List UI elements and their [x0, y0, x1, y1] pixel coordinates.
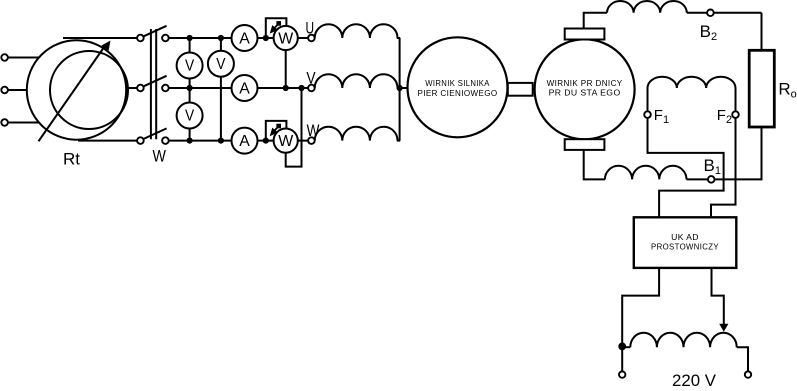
svg-text:V: V	[185, 108, 194, 125]
svg-text:W: W	[153, 147, 166, 166]
svg-text:W: W	[307, 121, 320, 140]
svg-text:WIRNIK SILNIKA: WIRNIK SILNIKA	[425, 78, 490, 88]
svg-text:PR DU STA EGO: PR DU STA EGO	[549, 88, 621, 98]
svg-text:W: W	[278, 30, 294, 47]
svg-text:A: A	[239, 133, 250, 150]
svg-text:V: V	[185, 58, 194, 75]
svg-text:A: A	[239, 30, 250, 47]
svg-text:PROSTOWNICZY: PROSTOWNICZY	[651, 242, 719, 252]
svg-text:V: V	[216, 56, 225, 73]
svg-text:W: W	[278, 133, 294, 150]
svg-text:PIER CIENIOWEGO: PIER CIENIOWEGO	[418, 88, 498, 98]
svg-text:Rt: Rt	[63, 150, 80, 169]
svg-text:U: U	[306, 18, 315, 37]
svg-text:A: A	[239, 80, 250, 97]
svg-text:220 V: 220 V	[672, 371, 717, 390]
svg-text:WIRNIK PR DNICY: WIRNIK PR DNICY	[547, 78, 623, 88]
